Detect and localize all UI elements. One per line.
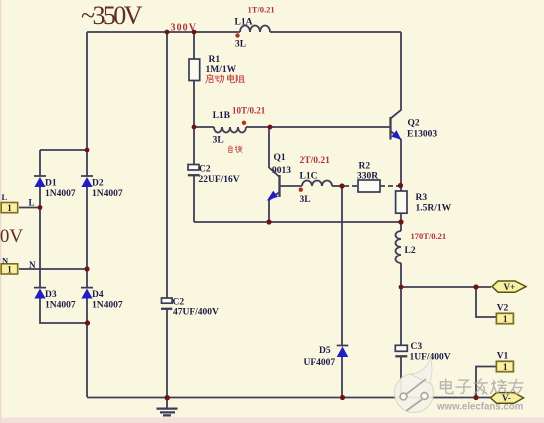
svg-text:47UF/400V: 47UF/400V xyxy=(173,308,219,318)
svg-text:L: L xyxy=(2,192,8,202)
svg-text:D1: D1 xyxy=(45,179,57,189)
svg-text:300V: 300V xyxy=(171,23,197,34)
svg-text:~350V: ~350V xyxy=(81,1,143,30)
svg-text:www.elecfans.com: www.elecfans.com xyxy=(436,401,524,412)
svg-text:N: N xyxy=(29,260,36,270)
svg-text:1N4007: 1N4007 xyxy=(45,301,76,311)
svg-text:C3: C3 xyxy=(411,342,423,352)
svg-text:D3: D3 xyxy=(45,290,57,300)
svg-text:1M/1W: 1M/1W xyxy=(206,65,237,75)
svg-text:E13003: E13003 xyxy=(407,130,437,140)
svg-text:1: 1 xyxy=(503,314,508,324)
svg-text:V+: V+ xyxy=(504,282,516,292)
svg-text:D5: D5 xyxy=(319,346,331,356)
svg-text:330R: 330R xyxy=(357,172,378,182)
svg-text:3L: 3L xyxy=(213,136,224,146)
svg-text:D4: D4 xyxy=(92,290,104,300)
svg-text:R1: R1 xyxy=(209,55,221,65)
svg-text:1N4007: 1N4007 xyxy=(45,189,76,199)
svg-text:L1C: L1C xyxy=(300,172,318,182)
svg-text:1: 1 xyxy=(7,203,12,213)
svg-text:N: N xyxy=(2,256,9,266)
svg-text:D2: D2 xyxy=(92,179,104,189)
svg-text:22UF/16V: 22UF/16V xyxy=(199,175,240,185)
svg-text:V2: V2 xyxy=(497,304,509,314)
svg-text:9013: 9013 xyxy=(272,166,291,176)
svg-text:1.5R/1W: 1.5R/1W xyxy=(416,204,452,214)
svg-text:3L: 3L xyxy=(235,40,246,50)
svg-text:L1B: L1B xyxy=(213,111,231,121)
svg-text:1N4007: 1N4007 xyxy=(92,301,123,311)
svg-text:220V: 220V xyxy=(0,226,23,247)
svg-text:L1A: L1A xyxy=(235,18,253,28)
svg-text:C2: C2 xyxy=(199,165,211,175)
svg-text:170T/0.21: 170T/0.21 xyxy=(411,231,447,241)
svg-text:Q1: Q1 xyxy=(274,153,286,163)
svg-text:L: L xyxy=(29,198,35,208)
svg-text:C2: C2 xyxy=(173,298,185,308)
svg-text:V1: V1 xyxy=(497,351,509,361)
svg-text:3L: 3L xyxy=(300,195,311,205)
svg-text:R3: R3 xyxy=(416,193,428,203)
svg-text:1N4007: 1N4007 xyxy=(92,189,123,199)
svg-text:L2: L2 xyxy=(405,246,416,256)
svg-text:10T/0.21: 10T/0.21 xyxy=(232,106,266,116)
svg-text:2T/0.21: 2T/0.21 xyxy=(300,156,331,166)
svg-text:1: 1 xyxy=(503,362,508,372)
svg-text:R2: R2 xyxy=(359,162,371,172)
svg-text:Q2: Q2 xyxy=(408,119,420,129)
svg-text:UF4007: UF4007 xyxy=(304,358,336,368)
svg-text:1T/0.21: 1T/0.21 xyxy=(248,5,275,15)
svg-text:1: 1 xyxy=(7,264,12,274)
